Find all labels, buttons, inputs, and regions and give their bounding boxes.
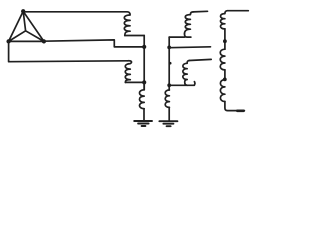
inductor L5 (x=187) — [183, 61, 189, 86]
junction dot rail2/L5 — [167, 83, 171, 87]
inductor L4 (x=190) — [184, 12, 193, 34]
node dot apex — [21, 9, 25, 13]
ink blob on bottom stub — [237, 110, 243, 113]
rail 1 vertical x=144 — [143, 36, 145, 90]
inductor L2 (x=130) — [125, 61, 131, 83]
wire phase B down and across — [9, 41, 128, 61]
inductor L7 (x=225) — [220, 11, 227, 29]
tap dot 2 — [223, 78, 227, 82]
inductor L6 (grounding coil x=169) — [165, 90, 169, 107]
ground 2 — [159, 121, 177, 126]
junction dot rail2 stub — [167, 46, 171, 50]
junction dot rail1/L2 — [142, 80, 146, 84]
node dot bottom-left — [6, 39, 10, 43]
wire top phase A — [23, 11, 127, 13]
stub wire mid of transformer 2 — [169, 46, 210, 49]
junction dot rail1/wireC — [142, 45, 146, 49]
rail 3 segment 2 — [224, 70, 226, 80]
rail 3 segment — [224, 29, 226, 49]
stub wire for L5 top — [189, 59, 211, 60]
stub wire top of transformer 3 — [228, 10, 249, 12]
lead to ground 2 — [168, 107, 170, 120]
ink blob on rail 2 — [169, 62, 172, 65]
wire L2 bottom to rail — [125, 81, 144, 83]
lead and bottom stub of transformer 3 — [225, 102, 245, 111]
wire L1 bottom to rail — [125, 35, 144, 37]
wire L4 bottom — [169, 34, 191, 37]
wire L5 return to rail2 — [169, 84, 194, 86]
loop tick at L5 wire end — [193, 82, 196, 86]
lead to ground 1 — [143, 109, 145, 121]
rail 2 vertical x=169 — [168, 37, 170, 90]
node dot bottom-right — [42, 39, 46, 43]
ground 1 — [134, 121, 152, 126]
generator delta-wye symbol (triangle with inner Y) — [9, 11, 44, 41]
inductor L9 (x=225) — [220, 80, 225, 102]
inductor L8 (x=225) — [220, 49, 225, 70]
tap dot 1 — [223, 39, 227, 43]
rail 1 lower — [143, 82, 145, 89]
inductor L3 (grounding coil x=144) — [139, 90, 144, 109]
inductor L1 (top winding, x=130) — [124, 12, 130, 36]
stub wire top of transformer 2 — [193, 10, 207, 13]
wire phase C with step — [44, 40, 144, 47]
